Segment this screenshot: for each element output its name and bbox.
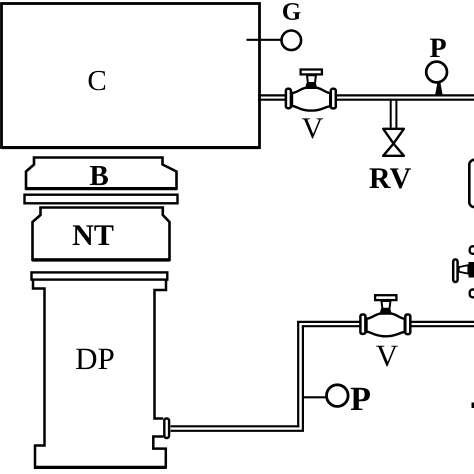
svg-text:P: P [429, 33, 446, 64]
svg-text:P: P [350, 381, 371, 418]
wire: thick bottom edge of B [26, 187, 178, 190]
DP outlet flange [164, 418, 169, 438]
pipe: valve V2 to right edge (double line) [410, 322, 474, 326]
valve at right edge: bottom flange (cut) [470, 290, 474, 298]
valve V2 [360, 295, 410, 336]
svg-text:RV: RV [369, 162, 412, 195]
bellows B [26, 158, 177, 189]
svg-text:DP: DP [75, 341, 115, 376]
svg-text:V: V [302, 112, 324, 145]
svg-text:C: C [87, 65, 106, 97]
svg-text:V: V [376, 338, 399, 373]
trap NT [33, 208, 170, 260]
vessel C [2, 4, 260, 148]
valve at right edge: body (cut) [469, 262, 474, 278]
valve at right edge: top flange (cut) [470, 246, 474, 254]
plate between B and NT [25, 195, 178, 204]
pipe: valve V1 to right edge (double line) [336, 95, 474, 99]
svg-text:G: G [282, 0, 302, 26]
gauge P2 circle [327, 385, 349, 407]
partial box at right edge [469, 160, 474, 207]
pump DP outline [33, 280, 166, 467]
wire: line from C to gauge G [247, 39, 283, 41]
gauge P1 stem [435, 83, 442, 95]
pipe: C to valve V1 (double line) [258, 95, 285, 99]
pipe: DP outlet to corner (double line) [171, 426, 304, 431]
plate between NT and DP [32, 272, 168, 279]
pipe: top run to valve V2 (double line) [297, 322, 360, 326]
valve at right edge: stem [459, 265, 469, 274]
valve V1 [286, 70, 336, 111]
wire: branch to gauge P2 [303, 396, 327, 398]
wire: thick bottom edge of NT [32, 258, 170, 261]
svg-text:NT: NT [72, 219, 114, 252]
pipe: branch down to relief valve RV (double line) [391, 100, 397, 130]
wire: thick bottom edge of C [2, 146, 260, 149]
gauge P1 circle [426, 62, 447, 83]
wire: thick bottom edge of DP [34, 466, 167, 469]
relief valve RV (hourglass) [383, 129, 404, 144]
pipe: vertical riser (double line) [298, 321, 303, 431]
mark at right edge [472, 403, 474, 409]
gauge G circle [282, 31, 302, 51]
valve at right edge (cut off): handle bar [453, 259, 457, 282]
